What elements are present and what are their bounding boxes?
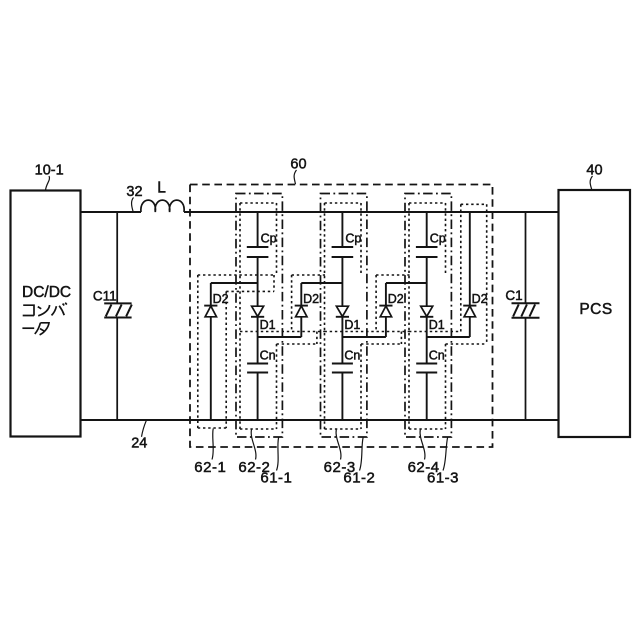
svg-text:62-1: 62-1	[194, 459, 226, 476]
svg-text:61-2: 61-2	[343, 470, 375, 487]
svg-text:C1: C1	[505, 288, 522, 303]
svg-text:D2: D2	[472, 292, 488, 306]
svg-text:Cn: Cn	[260, 348, 276, 362]
svg-text:DC/DC: DC/DC	[22, 284, 71, 301]
svg-text:Cp: Cp	[345, 232, 361, 246]
svg-text:24: 24	[131, 436, 147, 452]
svg-text:D2: D2	[388, 292, 404, 306]
svg-text:60: 60	[290, 157, 306, 173]
svg-text:61-1: 61-1	[260, 470, 292, 487]
svg-text:Cp: Cp	[261, 232, 277, 246]
svg-text:D2: D2	[303, 292, 319, 306]
svg-text:PCS: PCS	[579, 301, 612, 318]
svg-text:Cp: Cp	[430, 232, 446, 246]
svg-text:L: L	[157, 180, 166, 197]
svg-text:C11: C11	[93, 289, 117, 304]
svg-text:61-3: 61-3	[427, 470, 459, 487]
svg-text:D1: D1	[429, 318, 445, 332]
svg-text:Cn: Cn	[429, 348, 445, 362]
svg-text:40: 40	[586, 163, 602, 179]
svg-text:Cn: Cn	[344, 348, 360, 362]
svg-text:D1: D1	[260, 318, 276, 332]
svg-text:D1: D1	[344, 318, 360, 332]
svg-text:32: 32	[126, 184, 142, 200]
